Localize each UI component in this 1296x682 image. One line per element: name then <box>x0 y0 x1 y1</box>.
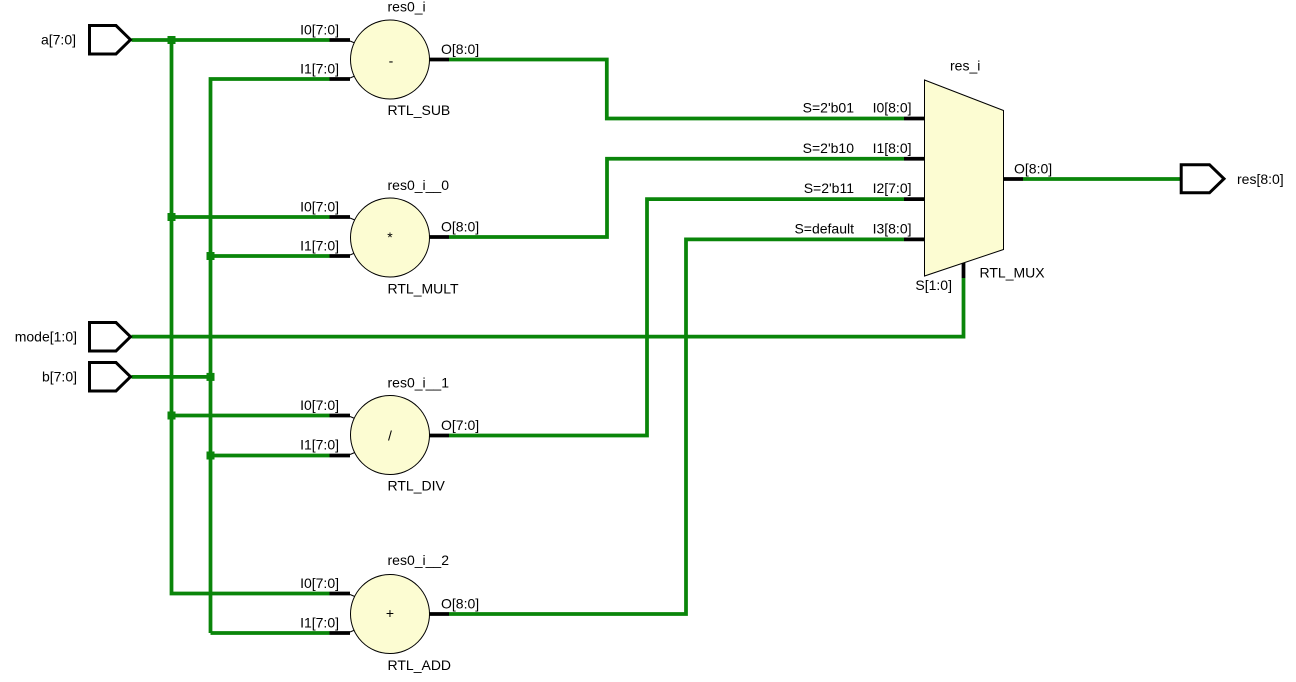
svg-text:res[8:0]: res[8:0] <box>1237 171 1284 187</box>
svg-text:I2[7:0]: I2[7:0] <box>873 180 912 196</box>
svg-text:I0[7:0]: I0[7:0] <box>300 199 339 215</box>
svg-text:res_i: res_i <box>950 58 980 74</box>
svg-text:O[8:0]: O[8:0] <box>441 596 479 612</box>
svg-text:I1[7:0]: I1[7:0] <box>300 615 339 631</box>
svg-text:RTL_ADD: RTL_ADD <box>388 657 452 673</box>
svg-text:b[7:0]: b[7:0] <box>42 369 77 385</box>
svg-text:I1[7:0]: I1[7:0] <box>300 437 339 453</box>
svg-text:a[7:0]: a[7:0] <box>41 32 76 48</box>
svg-text:res0_i__2: res0_i__2 <box>388 552 450 568</box>
svg-text:/: / <box>388 428 392 444</box>
svg-text:S=default: S=default <box>794 220 854 236</box>
svg-text:S[1:0]: S[1:0] <box>915 277 952 293</box>
svg-text:+: + <box>386 605 394 621</box>
svg-text:O[8:0]: O[8:0] <box>1014 161 1052 177</box>
svg-text:O[7:0]: O[7:0] <box>441 417 479 433</box>
svg-text:res0_i__1: res0_i__1 <box>388 375 450 391</box>
svg-text:RTL_DIV: RTL_DIV <box>388 478 446 494</box>
svg-text:I1[7:0]: I1[7:0] <box>300 238 339 254</box>
svg-text:res0_i: res0_i <box>388 0 426 15</box>
svg-text:O[8:0]: O[8:0] <box>441 41 479 57</box>
svg-text:RTL_MUX: RTL_MUX <box>980 265 1046 281</box>
svg-text:S=2'b11: S=2'b11 <box>804 180 855 196</box>
svg-text:RTL_MULT: RTL_MULT <box>388 281 460 297</box>
svg-text:mode[1:0]: mode[1:0] <box>15 329 77 345</box>
svg-text:S=2'b01: S=2'b01 <box>803 100 855 116</box>
svg-text:I0[7:0]: I0[7:0] <box>300 22 339 38</box>
svg-text:*: * <box>387 229 393 245</box>
svg-text:-: - <box>389 53 394 69</box>
svg-text:O[8:0]: O[8:0] <box>441 219 479 235</box>
svg-text:I3[8:0]: I3[8:0] <box>873 220 912 236</box>
svg-text:I0[7:0]: I0[7:0] <box>300 575 339 591</box>
svg-text:I1[7:0]: I1[7:0] <box>300 61 339 77</box>
svg-text:RTL_SUB: RTL_SUB <box>388 102 451 118</box>
svg-text:I0[8:0]: I0[8:0] <box>873 100 912 116</box>
svg-text:S=2'b10: S=2'b10 <box>803 140 855 156</box>
svg-text:res0_i__0: res0_i__0 <box>388 177 450 193</box>
svg-text:I1[8:0]: I1[8:0] <box>873 140 912 156</box>
svg-text:I0[7:0]: I0[7:0] <box>300 397 339 413</box>
